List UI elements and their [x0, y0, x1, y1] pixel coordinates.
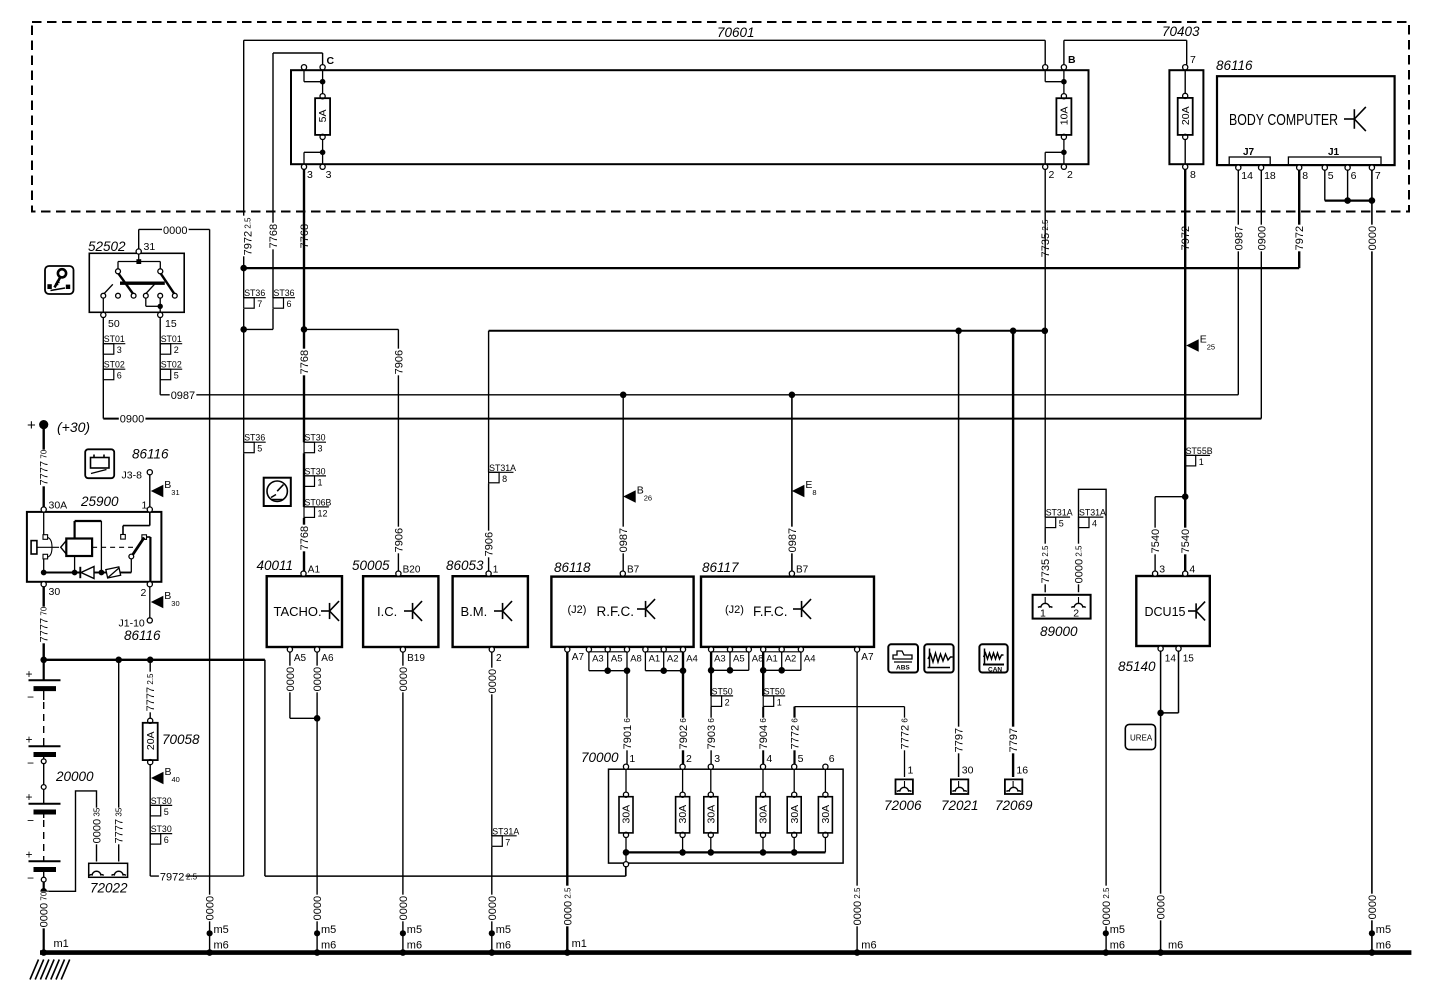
svg-text:30: 30: [171, 599, 179, 608]
svg-text:J7: J7: [1243, 147, 1255, 158]
svg-text:7906: 7906: [393, 350, 405, 374]
svg-text:CAN: CAN: [988, 667, 1002, 674]
junction 7972/7768 wires: [240, 326, 247, 333]
ignition switch box: [89, 253, 184, 312]
svg-text:25900: 25900: [80, 494, 119, 509]
reference arrow B26 on RFC B7 wire: [623, 490, 636, 502]
label 7768 above TACHO: [299, 349, 309, 376]
svg-text:3: 3: [326, 169, 332, 181]
svg-text:(J2): (J2): [568, 604, 587, 616]
svg-text:86117: 86117: [702, 560, 739, 575]
svg-text:85140: 85140: [1118, 659, 1156, 674]
svg-text:m5: m5: [321, 924, 336, 936]
+30 distribution bus: [44, 659, 265, 661]
svg-text:3: 3: [1159, 564, 1165, 576]
instrument gauge icon: [264, 478, 291, 506]
svg-text:1: 1: [1040, 608, 1046, 620]
wire 7904 to fuse 4 with connector ST50 pin 1: [762, 670, 764, 696]
wire 0000 RFC A7 to ground m1: [566, 652, 568, 953]
connector ST36 pin 5: [244, 441, 266, 443]
svg-text:8: 8: [1190, 169, 1196, 181]
svg-text:25: 25: [1207, 343, 1215, 352]
svg-text:B7: B7: [627, 565, 640, 576]
wire 7797 to 72069: [1012, 331, 1014, 777]
svg-text:30A: 30A: [677, 805, 689, 824]
70000 ground exit pin: [625, 852, 627, 862]
svg-text:ST31A: ST31A: [492, 826, 519, 836]
wire from pin 15 (net 0987): [159, 318, 161, 395]
svg-text:70403: 70403: [1162, 24, 1200, 39]
wire 0000 tacho A6 to ground: [316, 652, 318, 953]
label 0987: [170, 390, 197, 402]
svg-text:UREA: UREA: [1130, 734, 1153, 743]
svg-text:0000: 0000: [1367, 895, 1379, 919]
svg-text:1: 1: [318, 477, 323, 487]
+30 bus drop to 70000 fuse bank: [264, 660, 266, 876]
svg-text:B7: B7: [796, 565, 809, 576]
wire 0900 horizontal run: [103, 418, 1261, 420]
wire 7772 from 72006 to fuse 5: [795, 706, 905, 708]
wire from J3-8 to relay pin 1 with arrow B31: [149, 475, 151, 507]
svg-text:7540: 7540: [1150, 529, 1162, 553]
svg-text:40: 40: [172, 775, 180, 784]
svg-text:1: 1: [629, 753, 635, 765]
svg-text:6: 6: [117, 371, 122, 381]
ground connection tacho m5 m6: [312, 895, 322, 922]
svg-text:m6: m6: [321, 940, 336, 952]
wire from pin 50 (net 0900): [102, 318, 104, 419]
wire 70403 feed from fuse 10A pin B to 20A fuse: [1064, 39, 1187, 41]
svg-text:7972: 7972: [160, 871, 184, 883]
wire 7972 from J1-8: [1298, 170, 1300, 268]
svg-text:0000: 0000: [1367, 226, 1379, 250]
svg-text:0000: 0000: [1156, 895, 1168, 919]
svg-text:20A: 20A: [1180, 106, 1192, 125]
R.F.C. box: [551, 577, 693, 647]
svg-text:ST31A: ST31A: [1079, 508, 1106, 518]
DCU15 pins 3 4: [1153, 571, 1158, 576]
ignition switch internal contacts: [138, 254, 140, 262]
svg-text:B: B: [637, 485, 644, 497]
svg-text:m6: m6: [407, 940, 422, 952]
svg-text:m6: m6: [861, 940, 876, 952]
svg-text:72069: 72069: [995, 798, 1033, 813]
svg-text:14: 14: [1241, 170, 1253, 182]
svg-text:ST31A: ST31A: [1046, 508, 1073, 518]
connector strip J7: [1229, 157, 1270, 165]
connector ST02 pin 5: [160, 368, 182, 370]
svg-text:7540: 7540: [1180, 529, 1192, 553]
svg-text:0000: 0000: [398, 667, 410, 691]
svg-text:A2: A2: [667, 654, 679, 665]
tacho pins A5 A6: [287, 647, 292, 652]
wire 0000 70 battery to ground m1: [39, 892, 49, 929]
svg-text:5: 5: [1328, 170, 1334, 182]
junction on 7972 wire: [240, 265, 247, 272]
wire 7901 to fuse 1: [626, 671, 628, 765]
svg-text:R.F.C.: R.F.C.: [597, 604, 635, 619]
main ground bus: [40, 950, 1411, 955]
svg-text:8: 8: [1302, 170, 1308, 182]
relay internals: terminal, coil, diode, varistor, contact: [31, 541, 37, 554]
svg-text:0900: 0900: [1256, 226, 1268, 250]
svg-text:7768: 7768: [299, 526, 311, 550]
wire 7735 to 89000 pin 1: [1044, 528, 1046, 592]
ground connection 89000 m5 m6: [1101, 886, 1111, 927]
wire 0000 tacho A5 to ground join: [289, 652, 291, 718]
UREA icon: [1125, 724, 1155, 749]
wires 0000 from J1 pins 5 6 7 joined: [1324, 170, 1326, 200]
RFC pin merge wires to 70000 fuses: [588, 652, 590, 671]
svg-text:5: 5: [1059, 519, 1064, 529]
svg-text:A2: A2: [785, 654, 797, 665]
connector ST30 pin 3: [304, 441, 326, 443]
svg-text:A5: A5: [611, 654, 623, 665]
svg-text:−: −: [27, 814, 34, 828]
svg-text:2: 2: [1049, 169, 1055, 181]
ground connection BM m5 m6: [487, 895, 497, 922]
svg-text:4: 4: [1189, 564, 1195, 576]
connector ST02 pin 6: [103, 368, 125, 370]
wire 7797 to 72021: [958, 331, 960, 777]
connector ST31A pin 7: [492, 835, 517, 837]
icon truck diagnostic: [888, 644, 918, 672]
junction 7768 to 7906 branch: [301, 326, 308, 333]
svg-text:A4: A4: [686, 654, 698, 665]
svg-text:5A: 5A: [317, 110, 329, 123]
svg-text:52502: 52502: [88, 239, 126, 254]
svg-text:2: 2: [1067, 169, 1073, 181]
wire 7972 from 70058 with arrow B40: [149, 765, 151, 876]
svg-text:+: +: [27, 417, 36, 434]
reference arrow E25: [1186, 339, 1199, 351]
wire 7972 horizontal run to body computer J1-8: [244, 267, 1300, 269]
connector ST36 pin 6: [273, 297, 295, 299]
FFC pin merge wires: [710, 652, 712, 670]
connector ST31A pin 8: [489, 471, 514, 473]
svg-text:7906: 7906: [484, 532, 496, 556]
svg-text:30A: 30A: [758, 805, 770, 824]
svg-text:ST01: ST01: [161, 334, 182, 344]
svg-text:3: 3: [318, 444, 323, 454]
svg-text:ST36: ST36: [244, 288, 265, 298]
svg-text:70000: 70000: [581, 750, 619, 765]
wire 7777 35 from +30 bus to clamp 72022: [118, 660, 120, 862]
svg-text:−: −: [27, 871, 34, 885]
svg-text:0987: 0987: [787, 528, 799, 552]
svg-text:2: 2: [141, 587, 147, 599]
ground junction battery m1: [40, 949, 47, 956]
svg-text:86116: 86116: [132, 447, 169, 462]
wire 0987 to FFC B7: [791, 395, 793, 571]
connector ST30 pin 5: [150, 804, 172, 806]
svg-text:DCU15: DCU15: [1145, 605, 1186, 619]
ground connection DCU15 m6: [1155, 894, 1165, 921]
wire 7906 to BM pin 1: [488, 483, 490, 571]
svg-text:ST30: ST30: [151, 824, 172, 834]
wire 7735 from 10A fuse pin 2: [1044, 169, 1046, 517]
svg-text:7: 7: [505, 837, 510, 847]
wire from pin C of 5A fuse (net 7768): [273, 52, 323, 54]
svg-text:ST30: ST30: [305, 466, 326, 476]
svg-text:4: 4: [766, 753, 772, 765]
svg-text:7797: 7797: [954, 728, 966, 752]
wire 0000 body computer to ground: [1371, 170, 1373, 952]
relay switch blade and contact: [149, 512, 151, 526]
svg-text:26: 26: [644, 494, 652, 503]
relay pin 2: [147, 582, 152, 587]
svg-text:6: 6: [1351, 170, 1357, 182]
svg-text:7: 7: [257, 299, 262, 309]
DCU15 pins 14 15: [1158, 646, 1163, 651]
relay dashed actuation line: [92, 546, 133, 548]
svg-text:A6: A6: [321, 653, 334, 664]
svg-text:ST55B: ST55B: [1186, 446, 1213, 456]
svg-text:5: 5: [164, 807, 169, 817]
F.F.C. box: [701, 577, 874, 647]
connector ST01 pin 2: [160, 343, 182, 345]
svg-text:3: 3: [307, 169, 313, 181]
junction box 89000: [1033, 595, 1091, 619]
svg-text:30A: 30A: [820, 805, 832, 824]
svg-text:B20: B20: [403, 565, 421, 576]
svg-text:86053: 86053: [446, 558, 484, 573]
svg-text:A3: A3: [714, 654, 726, 665]
svg-text:86118: 86118: [554, 560, 591, 575]
svg-text:ST36: ST36: [244, 433, 265, 443]
fuse 5A with holder pins: [301, 65, 306, 70]
relay internal bottom rail with diode and varistor: [44, 572, 81, 574]
svg-text:A7: A7: [572, 652, 585, 663]
relay pin 1: [147, 507, 152, 512]
svg-text:ST50: ST50: [712, 686, 733, 696]
wire 0000 BM pin 2 to ground: [491, 652, 493, 836]
connector strip J1: [1288, 157, 1381, 165]
svg-text:1: 1: [777, 697, 782, 707]
svg-text:4: 4: [1092, 519, 1097, 529]
B.M. box: [453, 576, 528, 647]
svg-text:0000: 0000: [285, 667, 297, 691]
svg-text:1: 1: [493, 565, 499, 576]
labels 7540: [1150, 528, 1160, 555]
svg-text:70601: 70601: [717, 25, 755, 40]
instrument cluster I.C. box: [363, 576, 438, 647]
svg-text:30A: 30A: [705, 805, 717, 824]
wire 7906 branch to IC: [304, 328, 398, 330]
svg-text:+: +: [26, 733, 33, 747]
svg-text:B: B: [165, 766, 172, 778]
svg-text:0000: 0000: [163, 225, 187, 237]
wire supply rail to fuses (net 7972): [244, 39, 1045, 41]
svg-text:BODY COMPUTER: BODY COMPUTER: [1229, 112, 1338, 129]
svg-text:m5: m5: [407, 924, 422, 936]
svg-text:B19: B19: [407, 653, 425, 664]
svg-text:8: 8: [502, 474, 507, 484]
svg-text:2: 2: [725, 697, 730, 707]
svg-text:m1: m1: [572, 938, 587, 950]
RFC pins A3 A5 A8 A1 A2 A4: [586, 647, 591, 652]
wire 7902 to fuse 2: [682, 671, 684, 765]
svg-text:2: 2: [686, 753, 692, 765]
svg-text:B: B: [164, 479, 171, 491]
battery charge warning icon: [85, 449, 114, 478]
junction 7735 wire from 10A fuse: [1042, 328, 1049, 335]
svg-text:m6: m6: [214, 940, 229, 952]
svg-text:(+30): (+30): [57, 419, 90, 435]
svg-text:86116: 86116: [1216, 58, 1253, 73]
svg-text:J3-8: J3-8: [122, 470, 143, 482]
svg-text:7972: 7972: [1294, 226, 1306, 250]
svg-text:B.M.: B.M.: [461, 604, 488, 619]
svg-text:7: 7: [1190, 54, 1196, 66]
svg-text:6: 6: [829, 753, 835, 765]
svg-text:E: E: [805, 479, 812, 491]
wire 7972 continues down to battery feed line: [243, 268, 245, 298]
junction to 72069 sensor wire: [1010, 328, 1017, 335]
battery clamp 72022: [89, 863, 128, 877]
svg-text:50: 50: [108, 318, 120, 330]
svg-text:7768: 7768: [299, 350, 311, 374]
svg-text:B: B: [1068, 54, 1076, 66]
svg-text:31: 31: [144, 241, 156, 253]
ground connection IC m5 m6: [398, 895, 408, 922]
svg-text:7797: 7797: [1008, 728, 1020, 752]
wire 7777 70 from +30 to relay 30A: [43, 425, 45, 507]
svg-text:ST06B: ST06B: [305, 497, 332, 507]
wire 7735/7906 distribution line y=330.8: [489, 330, 1045, 332]
svg-text:30A: 30A: [621, 805, 633, 824]
svg-text:0987: 0987: [1233, 226, 1245, 250]
svg-text:A5: A5: [733, 654, 745, 665]
connector ST01 pin 3: [103, 343, 125, 345]
svg-text:3: 3: [714, 753, 720, 765]
junction to 72021 sensor wire: [955, 328, 962, 335]
svg-text:C: C: [327, 55, 335, 67]
svg-text:ST30: ST30: [151, 796, 172, 806]
svg-text:70058: 70058: [162, 732, 200, 747]
RFC pin B7: [620, 571, 625, 576]
key icon: [45, 266, 74, 294]
svg-text:2.5: 2.5: [186, 872, 198, 881]
svg-text:30A: 30A: [49, 500, 68, 512]
svg-text:TACHO.: TACHO.: [274, 604, 322, 619]
svg-text:3: 3: [117, 345, 122, 355]
wire 0000 DCU15 pin 14 to ground: [1160, 651, 1162, 952]
body computer K symbol: [1344, 118, 1354, 120]
label 7906 above BM: [483, 531, 493, 558]
svg-text:16: 16: [1016, 765, 1028, 777]
svg-text:2: 2: [1073, 608, 1079, 620]
svg-text:ABS: ABS: [896, 665, 910, 672]
svg-text:7: 7: [1375, 170, 1381, 182]
icon waveform with marker: [979, 644, 1007, 672]
svg-text:30: 30: [49, 586, 61, 598]
connector ST31A pin 5 on 7735 wire: [1045, 516, 1070, 518]
svg-text:A1: A1: [649, 654, 661, 665]
tacho pin A1: [301, 571, 306, 576]
svg-text:0000: 0000: [312, 667, 324, 691]
svg-text:20000: 20000: [55, 769, 94, 784]
junction 0987 to RFC B7: [620, 392, 627, 399]
wire 7972 bold from 20A fuse to DCU15 pin 4: [1184, 169, 1186, 571]
svg-text:F.F.C.: F.F.C.: [753, 604, 788, 619]
70000 internal bus: [626, 851, 825, 853]
svg-text:+: +: [26, 848, 33, 862]
svg-text:1: 1: [908, 765, 914, 777]
FFC pin B7: [789, 571, 794, 576]
svg-text:0900: 0900: [120, 414, 144, 426]
svg-text:6: 6: [287, 299, 292, 309]
wire 7777 70 from relay pin 30 to +30 bus: [43, 587, 45, 660]
wire 7768 bold from 5A fuse pin 3 down to TACHO A1: [303, 169, 305, 442]
svg-text:ST50: ST50: [764, 686, 785, 696]
svg-text:50005: 50005: [352, 558, 390, 573]
svg-text:A4: A4: [804, 654, 816, 665]
wire 0000 FFC A7 to ground: [856, 652, 858, 953]
ground connection 0000 m5 m6 (ignition 0000 wire): [204, 895, 214, 922]
wire 0987 from J7-14: [1237, 170, 1239, 395]
svg-text:−: −: [27, 690, 34, 704]
label 0900: [119, 414, 146, 426]
label 0000 on pin31 wire: [162, 225, 189, 237]
svg-text:m5: m5: [1376, 924, 1391, 936]
svg-text:0000: 0000: [205, 896, 217, 920]
svg-text:m6: m6: [1376, 940, 1391, 952]
svg-text:5: 5: [798, 753, 804, 765]
fuse holder long box: [291, 70, 1089, 164]
battery negative link to clamp 72022: [44, 791, 97, 891]
svg-text:A3: A3: [592, 654, 604, 665]
svg-text:I.C.: I.C.: [377, 604, 397, 619]
connector ST30 pin 6: [150, 833, 172, 835]
svg-text:A5: A5: [294, 653, 307, 664]
ignition pin 15: [158, 312, 163, 317]
ground connection body computer m5 m6: [1367, 894, 1377, 921]
reference arrow E8 on FFC B7 wire: [792, 485, 805, 497]
svg-text:A7: A7: [861, 652, 874, 663]
svg-text:m6: m6: [496, 940, 511, 952]
six 30A fuses: [625, 769, 627, 794]
svg-text:A8: A8: [630, 654, 642, 665]
wire 7972 down to 876 line: [243, 453, 245, 876]
icon signal waveform: [924, 644, 953, 672]
svg-text:6: 6: [164, 835, 169, 845]
fuse box 70000 outline: [609, 769, 844, 863]
connector ST55B pin 1: [1185, 454, 1210, 456]
RFC bottom pin A7: [565, 647, 570, 652]
label 7906 above IC: [393, 349, 403, 376]
wire 0900 from J7-18: [1260, 170, 1262, 418]
svg-text:30: 30: [962, 765, 974, 777]
svg-text:8: 8: [812, 488, 816, 497]
svg-text:B: B: [164, 590, 171, 602]
dashed enclosure box (fuse/body-computer compartment): [32, 22, 1409, 212]
svg-text:m6: m6: [1110, 940, 1125, 952]
wire 7903 to fuse 3 with connector ST50 pin 2: [710, 670, 712, 696]
connector ST06B pin 12: [304, 506, 329, 508]
svg-text:m5: m5: [1110, 924, 1125, 936]
ground symbol hatching: [30, 960, 70, 980]
70000 top pins 1-6: [623, 764, 628, 769]
svg-text:72021: 72021: [941, 798, 979, 813]
svg-text:20A: 20A: [145, 731, 157, 750]
ignition pin 50: [101, 312, 106, 317]
fuse 70058 20A: [149, 660, 151, 721]
svg-text:0000: 0000: [312, 896, 324, 920]
svg-text:m5: m5: [496, 924, 511, 936]
FFC pins A3 A5 A8 A1 A2 A4: [709, 647, 714, 652]
svg-text:m1: m1: [54, 938, 69, 950]
